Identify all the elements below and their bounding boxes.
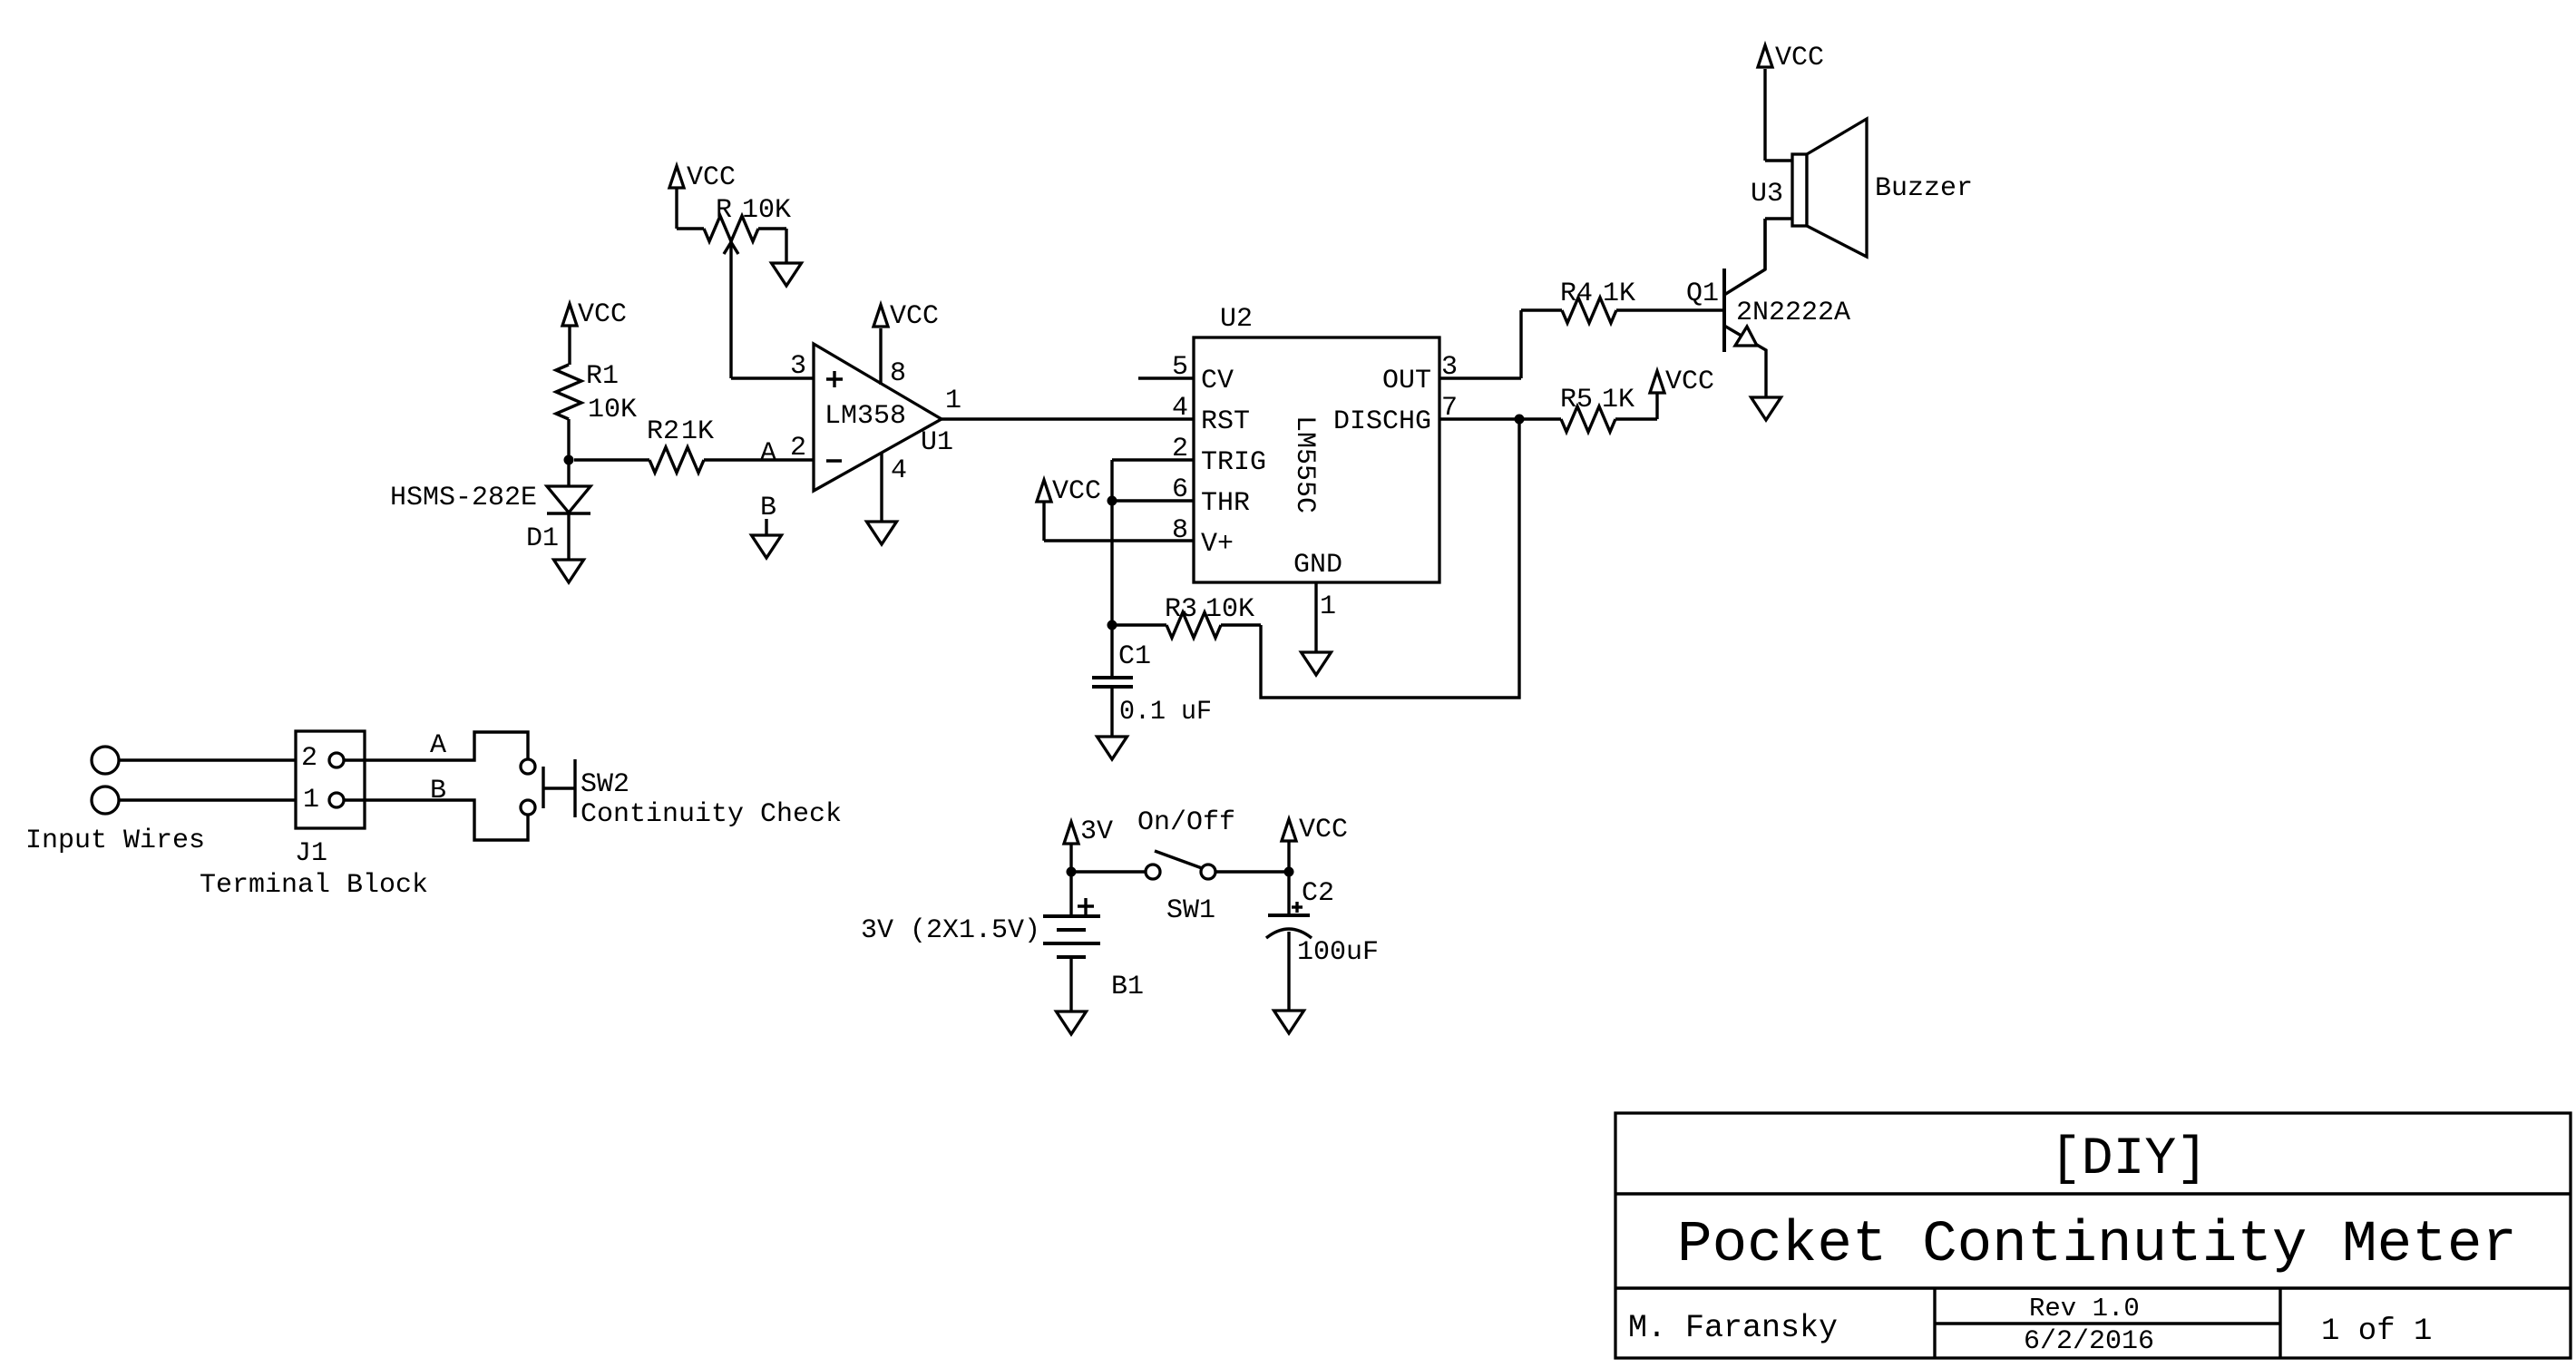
svg-text:SW1: SW1 <box>1166 895 1215 926</box>
pin 1 GND wire <box>1316 582 1336 652</box>
svg-text:VCC: VCC <box>1775 43 1824 73</box>
svg-text:2: 2 <box>1172 434 1188 464</box>
svg-text:VCC: VCC <box>1052 476 1101 507</box>
svg-text:3V: 3V <box>1080 816 1113 847</box>
svg-text:HSMS-282E: HSMS-282E <box>390 483 537 513</box>
svg-text:4: 4 <box>891 455 907 486</box>
pushbutton SW2 Continuity Check <box>521 759 842 830</box>
wire to SW1 <box>1071 870 1146 873</box>
wire pot wiper to op-amp pin 3 <box>731 376 814 379</box>
pin 7 DISCHG wire <box>1439 393 1561 424</box>
transistor Q1 2N2222A <box>1686 219 1850 397</box>
svg-text:2: 2 <box>301 743 317 774</box>
svg-text:VCC: VCC <box>578 299 627 330</box>
ground (below C1) <box>1098 737 1127 759</box>
wire input A <box>119 758 296 761</box>
svg-text:GND: GND <box>1293 550 1342 581</box>
svg-text:1: 1 <box>303 785 319 816</box>
svg-text:A: A <box>760 438 776 469</box>
svg-text:VCC: VCC <box>1665 366 1714 397</box>
node 3V <box>1064 816 1113 916</box>
svg-text:J1: J1 <box>295 838 327 869</box>
ground (below D1) <box>554 560 584 582</box>
svg-text:B: B <box>760 493 776 523</box>
svg-text:VCC: VCC <box>1299 815 1348 845</box>
wire op-amp output to U2 RST <box>942 417 1194 420</box>
svg-text:10K: 10K <box>588 395 637 425</box>
svg-text:Q1: Q1 <box>1686 278 1719 309</box>
svg-text:1: 1 <box>1320 591 1336 622</box>
wire TRIG/THR down to C1 node <box>1110 460 1113 625</box>
svg-text:5: 5 <box>1172 352 1188 383</box>
svg-text:U3: U3 <box>1751 179 1783 210</box>
wire R2 to op-amp pin 2 <box>704 458 814 461</box>
node VCC (op-amp pin 8) <box>873 301 939 332</box>
resistor R5 1K <box>1560 385 1657 432</box>
capacitor C1 0.1uF <box>1092 625 1212 737</box>
ground (pot right end) <box>772 263 802 286</box>
input wire terminal 2 <box>92 787 119 814</box>
svg-text:1: 1 <box>945 386 961 416</box>
svg-text:Pocket Continutity Meter: Pocket Continutity Meter <box>1677 1213 2517 1278</box>
svg-text:U2: U2 <box>1220 304 1253 335</box>
ground (battery B1) <box>1057 1011 1087 1034</box>
junction DISCHG <box>1515 415 1525 425</box>
svg-text:1 of 1: 1 of 1 <box>2321 1314 2432 1349</box>
svg-text:2: 2 <box>790 433 806 464</box>
junction SW1/C2 <box>1284 867 1294 877</box>
svg-text:8: 8 <box>890 358 906 389</box>
svg-text:LM555C: LM555C <box>1289 415 1320 513</box>
svg-text:R3: R3 <box>1165 594 1197 625</box>
svg-text:3: 3 <box>790 351 806 382</box>
svg-text:V+: V+ <box>1201 529 1234 560</box>
svg-text:M. Faransky: M. Faransky <box>1628 1310 1838 1346</box>
svg-text:2N2222A: 2N2222A <box>1736 298 1850 328</box>
junction R3/C1 <box>1107 620 1117 630</box>
svg-text:[DIY]: [DIY] <box>2050 1130 2208 1189</box>
pin 8 wire and label <box>881 328 906 389</box>
svg-text:R: R <box>716 195 732 226</box>
svg-text:100uF: 100uF <box>1297 937 1379 968</box>
node VCC (C2) <box>1282 815 1348 915</box>
buzzer U3 <box>1751 69 1973 269</box>
resistor R1 <box>556 361 637 460</box>
svg-text:Continuity Check: Continuity Check <box>581 799 842 830</box>
ground (Q1 emitter) <box>1751 397 1781 420</box>
capacitor C2 100uF <box>1266 878 1379 1011</box>
svg-text:Terminal Block: Terminal Block <box>200 870 428 901</box>
wire SW1 to VCC/C2 <box>1215 870 1289 873</box>
pin 5 CV stub <box>1138 352 1194 383</box>
node VCC (buzzer) <box>1758 43 1824 73</box>
svg-text:1K: 1K <box>1602 385 1634 415</box>
ground (op-amp pin 4) <box>867 522 897 544</box>
svg-text:7: 7 <box>1441 393 1458 424</box>
svg-text:SW2: SW2 <box>581 769 629 800</box>
resistor R3 10K <box>1112 594 1261 638</box>
ground (U2 GND pin) <box>1302 652 1332 675</box>
svg-text:Input Wires: Input Wires <box>25 826 205 856</box>
svg-text:TRIG: TRIG <box>1201 447 1266 478</box>
wire J1-2 to SW2 (net A) <box>344 730 528 761</box>
svg-text:R4: R4 <box>1560 278 1593 309</box>
svg-text:R1: R1 <box>586 361 619 392</box>
svg-text:3: 3 <box>1441 352 1458 383</box>
node VCC (potentiometer) <box>669 162 736 229</box>
pin 2 TRIG wire <box>1112 434 1194 464</box>
svg-text:R5: R5 <box>1560 385 1593 415</box>
svg-text:C1: C1 <box>1118 641 1151 672</box>
pin 6 THR wire <box>1112 474 1194 505</box>
resistor R4 1K <box>1521 278 1724 323</box>
svg-text:DISCHG: DISCHG <box>1333 406 1431 437</box>
svg-text:1K: 1K <box>1603 278 1635 309</box>
svg-text:OUT: OUT <box>1382 366 1431 396</box>
ground (below B) <box>752 535 782 558</box>
pin 8 V+ wire <box>1044 515 1194 546</box>
svg-text:D1: D1 <box>526 523 559 554</box>
svg-text:THR: THR <box>1201 488 1250 519</box>
title block frame <box>1615 1113 2571 1358</box>
svg-text:B1: B1 <box>1111 972 1144 1002</box>
node A junction (R1/R2/D1) <box>564 455 574 465</box>
node VCC (U2 V+) <box>1037 476 1101 541</box>
svg-text:VCC: VCC <box>890 301 939 332</box>
svg-text:4: 4 <box>1172 393 1188 424</box>
input wire terminal 1 <box>92 747 119 774</box>
terminal block J1 <box>200 731 428 901</box>
switch SW1 On/Off <box>1137 807 1235 926</box>
wire input B <box>119 798 296 801</box>
svg-text:1K: 1K <box>681 416 714 447</box>
svg-text:B: B <box>430 776 446 806</box>
svg-text:RST: RST <box>1201 406 1250 437</box>
potentiometer R 10K <box>677 195 791 378</box>
junction battery/SW1 <box>1067 867 1077 877</box>
svg-text:8: 8 <box>1172 515 1188 546</box>
pin 3 OUT wire <box>1439 352 1521 383</box>
svg-text:C2: C2 <box>1302 878 1334 909</box>
node VCC (R1 top) <box>562 299 627 365</box>
svg-text:10K: 10K <box>1205 594 1254 625</box>
wire node A to R2 <box>574 458 649 461</box>
wire R3 to DISCHG net <box>1261 419 1519 698</box>
svg-text:3V (2X1.5V): 3V (2X1.5V) <box>861 915 1040 946</box>
battery B1 3V <box>861 898 1144 1011</box>
svg-text:Buzzer: Buzzer <box>1875 173 1973 204</box>
svg-text:R2: R2 <box>647 416 679 447</box>
svg-text:U1: U1 <box>921 427 953 458</box>
svg-text:0.1 uF: 0.1 uF <box>1119 697 1212 728</box>
resistor R2 1K <box>647 416 714 473</box>
ground (C2) <box>1274 1011 1304 1033</box>
svg-text:10K: 10K <box>742 195 791 226</box>
op-amp U1 LM358 <box>814 344 953 491</box>
svg-text:Rev 1.0: Rev 1.0 <box>2029 1294 2140 1324</box>
svg-text:CV: CV <box>1201 366 1234 396</box>
svg-text:On/Off: On/Off <box>1137 807 1235 838</box>
svg-text:LM358: LM358 <box>825 401 906 432</box>
diode D1 HSMS-282E <box>390 460 590 560</box>
svg-text:A: A <box>430 730 446 761</box>
pin 4 wire and label <box>882 453 907 522</box>
svg-text:6/2/2016: 6/2/2016 <box>2024 1326 2154 1357</box>
IC U2 LM555C timer <box>1194 304 1439 582</box>
svg-text:6: 6 <box>1172 474 1188 505</box>
junction THR <box>1107 496 1117 506</box>
wire OUT up to R4 <box>1519 310 1522 378</box>
node VCC (R5) <box>1650 366 1714 397</box>
svg-text:VCC: VCC <box>687 162 736 193</box>
node label B with ground <box>760 493 776 535</box>
wire J1-1 to SW2 (net B) <box>344 776 528 840</box>
